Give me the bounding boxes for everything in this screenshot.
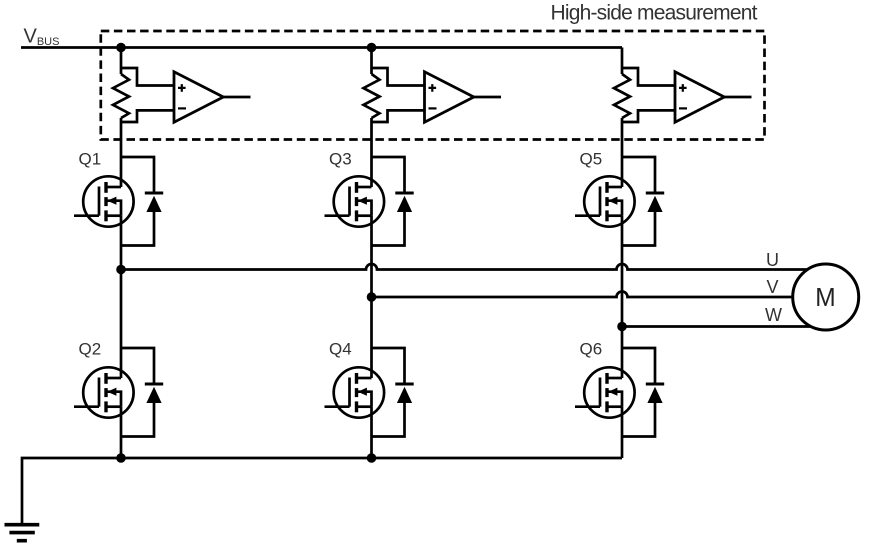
wire leg 3 vertical: bus to shunt [621,48,624,75]
wire phase W [622,325,812,328]
node VBUS-leg1 junction [116,43,126,53]
ground symbol [5,525,40,541]
motor M [793,264,859,330]
svg-text:Q3: Q3 [329,150,352,169]
wire leg 1 vertical: Q2 source to ground rail [120,407,123,458]
body diode of Q6 [622,348,664,437]
node phase V junction [367,292,377,302]
svg-text:U: U [766,250,779,270]
body diode of Q2 [121,348,163,437]
wire leg 1 vertical: phase node to Q2 drain [120,270,123,379]
svg-text:W: W [765,305,782,325]
wire sense tap bottom (leg 2) [372,110,425,122]
svg-text:Q2: Q2 [79,340,102,359]
wire op-amp U3 output [724,96,751,99]
transistor Q1 (N-MOSFET) [74,176,134,226]
svg-text:High-side measurement: High-side measurement [551,1,758,24]
svg-text:V: V [767,277,779,297]
wire sense tap bottom (leg 3) [622,110,675,122]
wire leg 3 vertical: Q5 source to phase node [621,216,624,327]
shunt resistor (leg 1) [113,74,129,118]
wire op-amp U2 output [474,96,501,99]
wire VBUS bus rail [21,46,622,49]
body diode of Q5 [622,157,664,246]
op-amp U1 (current-sense amplifier) [174,72,223,122]
op-amp U2 (current-sense amplifier) [425,72,474,122]
transistor Q3 (N-MOSFET) [325,176,385,226]
shunt resistor (leg 3) [614,74,630,118]
wire phase V (with crossover hop) [372,292,795,298]
wire leg 2 vertical: Q3 source to phase node [370,216,373,297]
wire leg 2 vertical: phase node to Q4 drain [370,297,373,378]
wire phase U (with crossover hops) [121,264,808,270]
dashed box: high-side measurement region [101,31,765,140]
wire leg 3 vertical: phase node to Q6 drain [621,327,624,379]
body diode of Q4 [372,348,414,437]
wire sense tap top (leg 2) [372,68,425,86]
transistor Q5 (N-MOSFET) [575,176,635,226]
node ground rail leg1 junction [116,453,126,463]
wire sense tap top (leg 3) [622,68,675,86]
wire leg 2 vertical: Q4 source to ground rail [370,407,373,458]
transistor Q4 (N-MOSFET) [325,367,385,417]
wire ground rail [22,458,622,524]
shunt resistor (leg 2) [364,74,380,118]
transistor Q6 (N-MOSFET) [575,367,635,417]
wire leg 3 vertical: shunt to Q5 drain [621,118,624,187]
wire sense tap top (leg 1) [121,68,174,86]
wire leg 2 vertical: bus to shunt [370,48,373,75]
svg-text:Q6: Q6 [580,340,603,359]
svg-text:Q1: Q1 [79,150,102,169]
svg-text:Q5: Q5 [580,150,603,169]
wire leg 1 vertical: shunt to Q1 drain [120,118,123,187]
node ground rail leg2 junction [367,453,377,463]
body diode of Q3 [372,157,414,246]
wire op-amp U1 output [223,96,250,99]
node phase W junction [617,322,627,332]
body diode of Q1 [121,157,163,246]
svg-text:M: M [815,282,835,312]
op-amp U3 (current-sense amplifier) [675,72,724,122]
node VBUS-leg2 junction [367,43,377,53]
wire leg 2 vertical: shunt to Q3 drain [370,118,373,187]
wire sense tap bottom (leg 1) [121,110,174,122]
node phase U junction [116,265,126,275]
wire leg 1 vertical: bus to shunt [120,48,123,75]
wire leg 3 vertical: Q6 source to ground rail [621,407,624,458]
transistor Q2 (N-MOSFET) [74,367,134,417]
svg-text:Q4: Q4 [329,340,352,359]
wire leg 1 vertical: Q1 source to phase node [120,216,123,270]
